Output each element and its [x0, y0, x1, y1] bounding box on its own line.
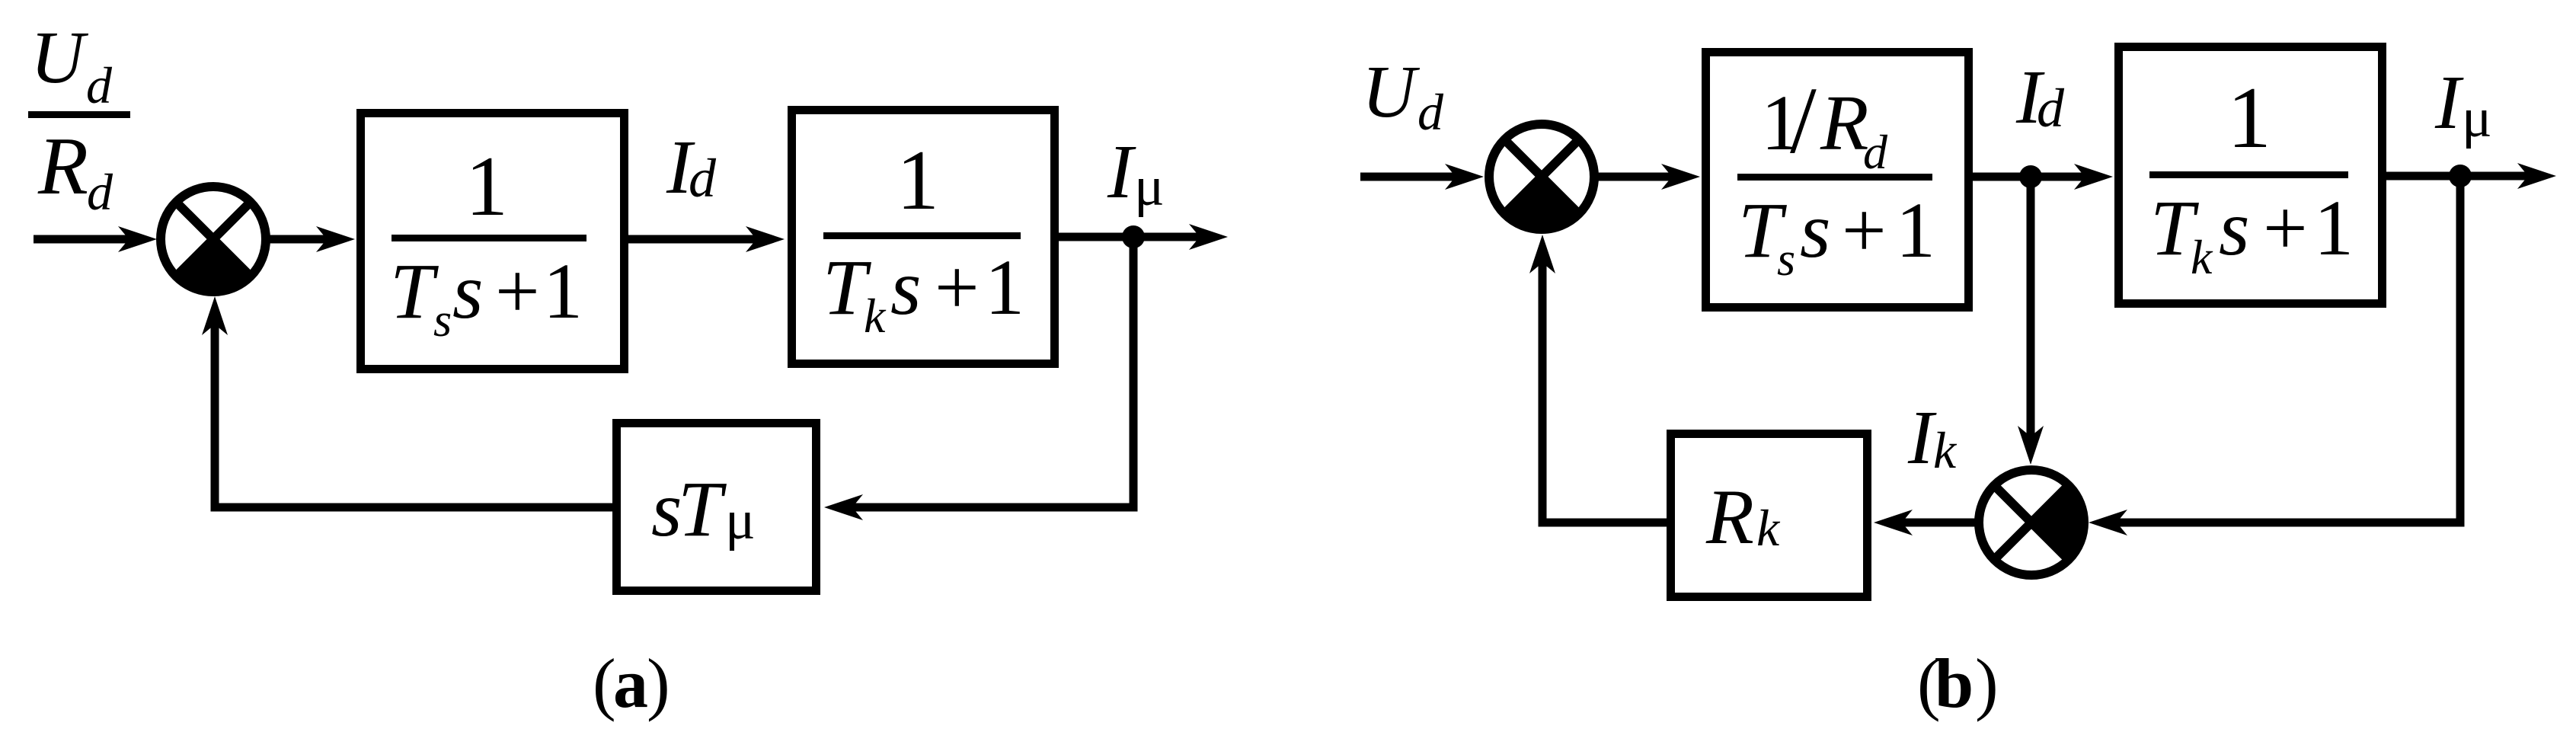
svg-text:k: k [2191, 230, 2213, 284]
svg-text:1: 1 [465, 139, 508, 234]
svg-text:T: T [678, 465, 727, 553]
block G1b (1/Rd)/(Ts·s+1) [1706, 53, 1969, 308]
svg-text:d: d [86, 56, 113, 114]
svg-text:s: s [1777, 234, 1795, 286]
svg-text:I: I [2434, 59, 2464, 145]
svg-text:s: s [452, 248, 483, 335]
wire Id node down into junction B2 [2018, 177, 2044, 465]
node Imu label (a) [1107, 129, 1165, 218]
svg-text:R: R [1820, 79, 1869, 167]
svg-text:R: R [1705, 474, 1754, 561]
summing junction A [161, 187, 266, 292]
block G2a 1/(Tk·s+1) [792, 110, 1055, 364]
node Id label (b) [2015, 54, 2065, 139]
svg-text:d: d [1417, 83, 1444, 141]
label (a) [593, 644, 670, 722]
svg-text:1: 1 [543, 248, 583, 335]
svg-text:d: d [1863, 125, 1888, 179]
svg-text:s: s [1800, 187, 1830, 274]
wire output of G2b with Imu node dot and arrow [2382, 163, 2556, 189]
block sTmu [617, 424, 817, 591]
svg-text:/: / [1790, 69, 1817, 174]
wire junction B2 to block Rk [1874, 510, 1979, 535]
wire junction A to block G1a [266, 226, 355, 252]
summing junction B1 [1489, 124, 1594, 229]
wire feedback drop from output node (a) [1130, 237, 1138, 512]
wire junction B1 to block G1b [1594, 164, 1700, 190]
wire output of G2a with node dot and arrow [1054, 224, 1228, 250]
svg-text:1: 1 [985, 244, 1024, 331]
wire feedback from sTmu up to junction A [202, 296, 612, 512]
wire input arrow into summing junction A [34, 226, 157, 252]
svg-text:μ: μ [2462, 87, 2492, 149]
block G1a 1/(Ts·s+1) [361, 113, 625, 369]
label (b) [1917, 644, 1999, 722]
block G2b 1/(Tk·s+1) [2119, 47, 2383, 304]
svg-text:R: R [37, 121, 88, 212]
svg-text:s: s [433, 295, 452, 347]
svg-text:): ) [647, 644, 670, 722]
wire block G1a to block G2a [628, 226, 785, 252]
svg-text:μ: μ [725, 489, 756, 551]
svg-text:b: b [1935, 644, 1974, 722]
svg-text:d: d [87, 163, 113, 221]
svg-text:d: d [689, 148, 717, 209]
summing junction B2 [1979, 470, 2084, 575]
svg-text:T: T [390, 248, 439, 335]
svg-text:+: + [1842, 187, 1887, 274]
wire Rk left and up into junction B1 [1529, 235, 1667, 527]
svg-text:d: d [2037, 78, 2065, 139]
svg-text:k: k [1756, 499, 1781, 557]
node Ik label [1907, 395, 1958, 480]
svg-text:U: U [1362, 51, 1421, 133]
svg-text:a: a [613, 644, 648, 722]
svg-text:+: + [495, 248, 540, 335]
svg-text:1: 1 [1896, 187, 1935, 274]
svg-text:s: s [2219, 184, 2249, 272]
svg-text:): ) [1975, 644, 1999, 722]
svg-text:k: k [864, 289, 887, 343]
node input label Ud (b) [1362, 51, 1444, 141]
node Id label (a) [666, 124, 717, 209]
svg-text:+: + [2263, 184, 2308, 272]
node Imu label (b) [2434, 59, 2492, 149]
wire G1b to G2b with Id node dot [1968, 164, 2113, 190]
wire feedback into sTmu block [824, 494, 1138, 520]
svg-text:+: + [935, 244, 980, 331]
wire input arrow into summing junction B1 [1360, 164, 1484, 190]
svg-text:k: k [1933, 421, 1958, 479]
svg-text:μ: μ [1134, 155, 1165, 218]
svg-text:U: U [30, 17, 89, 99]
wire Imu node down and left into junction B2 [2089, 176, 2465, 535]
svg-text:1: 1 [2227, 69, 2271, 167]
block Rk [1671, 434, 1868, 597]
svg-text:1: 1 [896, 133, 939, 228]
svg-text:I: I [1107, 129, 1136, 214]
svg-text:s: s [890, 244, 921, 331]
node input label Ud/Rd [28, 17, 130, 221]
svg-text:1: 1 [2314, 184, 2354, 272]
